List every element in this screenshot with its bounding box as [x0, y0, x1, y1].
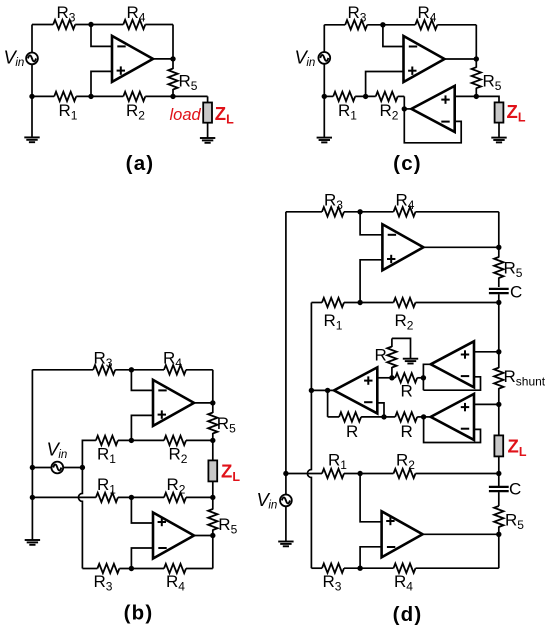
resistor R5 (c) — [475, 59, 477, 68]
op-amp U1 (d) — [382, 224, 423, 270]
node (c) R3-R4 junction — [380, 22, 385, 27]
wire (b) top mid — [115, 369, 164, 371]
wire (d) upper R lead — [392, 377, 395, 379]
wire (b) top left — [32, 369, 93, 371]
resistor R2 (a) — [123, 92, 145, 101]
wire (d) lower R2nd lead — [384, 416, 395, 418]
svg-text:R4: R4 — [418, 3, 437, 25]
node (d) U5 output junction — [496, 532, 501, 537]
node (d) U4 output junction — [421, 414, 426, 419]
ground (a) left — [24, 136, 39, 138]
wire (a) bottom mid — [76, 95, 123, 97]
node (d) Rshunt top junction — [496, 349, 501, 354]
op-amp U1 (a) minus sign — [117, 45, 125, 47]
svg-text:R1: R1 — [324, 311, 343, 333]
wire (d) U4 plus input — [474, 403, 499, 405]
wire (d) U2 feedback lead — [328, 416, 340, 418]
node (b) U2 output junction — [210, 533, 215, 538]
node (b) lower R1-R2 junction — [129, 495, 134, 500]
wire (d) U5 output — [423, 533, 499, 535]
wire (c) load to ground — [498, 123, 500, 138]
node (c) R1-R2 junction — [363, 94, 368, 99]
wire (d) C to rail — [498, 294, 500, 302]
svg-text:R5: R5 — [505, 511, 524, 533]
resistor R1 (c) — [333, 92, 355, 101]
svg-text:R5: R5 — [483, 72, 502, 94]
wire (d) lower rail right — [416, 473, 499, 475]
op-amp U2 (d) — [334, 367, 377, 413]
ground (b) — [25, 539, 40, 541]
wire (b) upper mid rail right — [186, 439, 213, 441]
node (d) R3-R4 junction — [357, 209, 362, 214]
resistor R (d) lower middle — [395, 412, 417, 421]
op-amp U1 (c) plus sign — [408, 70, 416, 72]
svg-text:R3: R3 — [348, 3, 367, 25]
node (c) output junction — [474, 56, 479, 61]
svg-text:R5: R5 — [504, 259, 523, 281]
resistor R3 (d) bottom — [322, 564, 344, 573]
svg-text:C: C — [510, 283, 522, 302]
wire (b) U2 inverting branch — [131, 548, 153, 569]
resistor R2 (b) upper — [164, 436, 186, 445]
wire (d) bottom mid — [344, 567, 394, 569]
wire (d) C to R5 — [498, 492, 500, 506]
svg-text:R1: R1 — [338, 101, 357, 123]
wire (a) non-inverting input branch — [91, 71, 112, 96]
op-amp U3 (d) minus sign — [461, 375, 469, 377]
wire (d) U2 plus stub — [377, 377, 392, 379]
node (d) Rshunt bottom junction — [496, 402, 501, 407]
svg-text:R2: R2 — [395, 311, 414, 333]
svg-text:R4: R4 — [396, 191, 415, 213]
voltage source Vin (d) — [280, 495, 292, 507]
node (b) upper R1-R2 junction — [129, 438, 134, 443]
voltage source Vin (a) — [26, 53, 38, 65]
node (d) upper R junction — [389, 375, 394, 380]
wire (a) top left — [32, 24, 53, 26]
resistor R1 (d) lower — [322, 469, 344, 478]
wire (b) Vin vertical with hop over lower rail — [78, 468, 82, 569]
op-amp U4 (d) plus sign — [461, 406, 469, 408]
wire (c) top mid — [367, 24, 415, 26]
svg-text:ZL: ZL — [508, 436, 527, 460]
circuit (b): left vertical wire — [31, 370, 33, 540]
wire (c) top left — [324, 24, 345, 26]
wire (b) lower mid rail — [118, 496, 164, 498]
wire (d) U2 output stub — [311, 389, 334, 391]
resistor Rshunt (d) — [498, 352, 500, 368]
op-amp U3 (d) — [431, 341, 474, 387]
wire (d) U2 inverting branch — [377, 403, 384, 417]
node (b) ZL bottom junction — [210, 495, 215, 500]
svg-text:(c): (c) — [393, 152, 422, 175]
resistor R4 (a) — [123, 20, 145, 29]
node (d) lower rail right junction — [496, 471, 501, 476]
svg-text:ZL: ZL — [215, 103, 234, 127]
op-amp U5 (d) minus sign — [387, 546, 395, 548]
wire (a) top middle — [75, 24, 123, 26]
resistor R3 (b) top — [93, 365, 115, 374]
load Z_L (b) — [208, 460, 217, 481]
op-amp U2 (c) plus sign — [441, 99, 449, 101]
node (d) lower R junction — [381, 414, 386, 419]
op-amp U2 buffer (c) — [411, 86, 454, 132]
resistor R5 (b) upper — [212, 403, 214, 413]
wire (d) U4 output stub — [424, 416, 431, 418]
resistor R2 (b) lower — [164, 493, 186, 502]
svg-text:R3: R3 — [323, 572, 342, 594]
resistor R5 (b) lower — [212, 497, 214, 509]
node (b) lower rail left junction — [30, 495, 35, 500]
resistor R4 (b) bottom — [164, 564, 186, 573]
node (b) Vin left junction — [30, 465, 35, 470]
wire (d) U3 plus input — [474, 351, 499, 353]
node (d) lower rail left junction — [283, 471, 288, 476]
svg-text:(d): (d) — [393, 603, 423, 626]
node (d) lower R1-R2 junction — [357, 471, 362, 476]
svg-text:R2: R2 — [126, 101, 145, 123]
node (a) bottom left junction — [29, 94, 34, 99]
svg-text:R: R — [375, 346, 387, 365]
svg-text:ZL: ZL — [221, 461, 240, 485]
wire (b) bottom left — [82, 568, 97, 570]
wire (c) buffer plus input — [455, 95, 477, 97]
wire (b) Vin stub — [32, 467, 82, 469]
wire (d) U1 inverting branch — [360, 212, 382, 235]
svg-text:R: R — [401, 422, 413, 441]
op-amp U1 (a) plus sign — [117, 70, 125, 72]
wire (d) U1 output — [423, 246, 498, 248]
wire (b) lower mid rail right — [186, 496, 213, 498]
node (d) U2 feedback tap — [325, 388, 330, 393]
node (a) output junction — [170, 56, 175, 61]
resistor R (d) upper middle — [395, 373, 417, 382]
wire (b) upper mid rail left — [82, 440, 96, 467]
node (b) R3-R4 bottom junction — [129, 566, 134, 571]
wire (b) upper mid rail — [118, 439, 164, 441]
resistor R5 (d) top — [498, 247, 500, 257]
svg-text:R3: R3 — [57, 3, 76, 25]
resistor R4 (d) bottom — [394, 564, 416, 573]
resistor R3 (c) — [345, 20, 367, 29]
svg-text:R: R — [346, 422, 358, 441]
wire (d) right column upper — [498, 303, 500, 352]
resistor R (d) grounded — [391, 338, 393, 347]
node (d) R3-R4 bottom junction — [357, 566, 362, 571]
svg-text:R5: R5 — [217, 414, 236, 436]
svg-text:load: load — [170, 106, 202, 124]
circuit (d): main left vertical wire — [285, 212, 287, 542]
svg-text:Vin: Vin — [295, 47, 316, 70]
resistor R2 (d) upper — [394, 298, 416, 307]
circuit (c): left vertical wire — [323, 25, 325, 138]
wire (d) rail to C — [498, 474, 500, 487]
wire (d) U2 feedback down — [327, 390, 329, 417]
node (b) U1 output junction — [210, 400, 215, 405]
op-amp U2 (b) plus sign — [158, 521, 166, 523]
op-amp U5 (d) — [382, 511, 423, 557]
svg-text:R1: R1 — [59, 101, 78, 123]
node (d) U1 output junction — [496, 245, 501, 250]
wire (b) ZL top lead — [212, 440, 214, 461]
wire (d) feedback to junction — [361, 416, 384, 418]
wire (c) top right — [437, 24, 476, 26]
node (b) R5-ZL top junction — [210, 438, 215, 443]
node (d) U2 output rail junction — [309, 388, 314, 393]
svg-text:R2: R2 — [169, 445, 188, 467]
svg-text:R1: R1 — [328, 451, 347, 473]
wire (d) bottom right — [416, 567, 499, 569]
wire (d) U3 output stub — [423, 364, 430, 390]
wire (d) U1 non-inverting branch — [360, 260, 382, 303]
svg-text:R5: R5 — [218, 515, 237, 537]
wire (a) op-amp output — [153, 58, 173, 60]
op-amp U2 (b) — [153, 513, 194, 559]
op-amp U3 (d) plus sign — [461, 354, 469, 356]
wire (c) bottom mid — [355, 95, 376, 97]
resistor R (d) U2 feedback — [339, 412, 361, 421]
wire (d) U3 feedback wrap — [423, 377, 480, 390]
node (b) Vin right junction — [80, 465, 85, 470]
wire (b) ZL bottom lead — [212, 481, 214, 497]
wire (a) inverting input branch — [91, 25, 112, 47]
op-amp U1 (b) plus sign — [158, 414, 166, 416]
svg-text:R4: R4 — [127, 3, 146, 25]
node (c) buffer output junction — [402, 106, 407, 111]
svg-text:R4: R4 — [394, 572, 413, 594]
svg-text:R1: R1 — [97, 475, 116, 497]
resistor R2 (c) — [376, 92, 398, 101]
svg-text:C: C — [509, 480, 521, 499]
node (a) R1-R2 junction — [88, 94, 93, 99]
capacitor C (d) bottom — [489, 486, 509, 488]
wire (b) bottom right — [186, 568, 213, 570]
wire (d) lower rail mid — [344, 473, 394, 475]
wire (a) bottom right — [145, 95, 173, 97]
wire (d) upper rail left — [311, 302, 322, 304]
resistor R1 (b) lower — [96, 493, 118, 502]
resistor R1 (a) — [54, 92, 76, 101]
wire (b) top right — [186, 369, 213, 371]
capacitor C (d) top — [489, 288, 509, 290]
op-amp U1 (d) minus sign — [388, 234, 396, 236]
svg-text:R3: R3 — [94, 572, 113, 594]
resistor R3 (d) top — [322, 207, 344, 216]
svg-text:R3: R3 — [94, 349, 113, 371]
wire (c) inverting branch — [383, 25, 404, 47]
wire (b) bottom mid — [119, 568, 164, 570]
resistor R4 (d) top — [394, 207, 416, 216]
wire (b) lower mid rail left — [32, 496, 96, 498]
node (c) Vin bottom junction — [322, 94, 327, 99]
node (c) R5 bottom junction — [474, 94, 479, 99]
svg-text:Vin: Vin — [257, 489, 278, 512]
resistor R5 (a) — [172, 59, 174, 69]
node (a) R3-R4 junction — [88, 22, 93, 27]
svg-text:R1: R1 — [97, 445, 116, 467]
ground (a) under load — [200, 137, 215, 139]
circuit (a): Howland current source -- left vertical wire — [31, 25, 33, 138]
wire (d) top left — [286, 211, 322, 213]
wire (a) to load — [173, 95, 208, 97]
op-amp U1 (b) minus sign — [158, 389, 166, 391]
op-amp U2 (b) minus sign — [158, 547, 166, 549]
wire (d) ZL top lead — [498, 404, 500, 436]
node (b) R3-R4 top junction — [129, 367, 134, 372]
wire (c) buffer feedback loop — [404, 109, 461, 143]
resistor R1 (b) upper — [96, 436, 118, 445]
resistor R5 (d) bottom — [494, 506, 503, 527]
wire (c) buffer output stub — [404, 108, 411, 110]
wire (b) U1 inverting branch — [131, 370, 153, 391]
wire (d) upper rail right — [416, 302, 499, 304]
svg-text:R3: R3 — [324, 191, 343, 213]
resistor R3 (a) — [53, 20, 75, 29]
load Z_L (d) — [494, 435, 503, 456]
wire (d) U4 feedback wrap — [424, 417, 481, 443]
wire (b) U1 non-inverting branch — [131, 415, 153, 440]
node (d) upper R1-R2 junction — [357, 300, 362, 305]
ground (c) left — [317, 137, 332, 139]
wire (d) upper R to U3 — [417, 377, 423, 379]
svg-text:Vin: Vin — [4, 47, 25, 70]
wire (c) non-inverting branch — [366, 72, 404, 97]
node (d) upper rail right junction — [496, 300, 501, 305]
op-amp U2 (c) minus sign — [441, 121, 449, 123]
svg-text:R: R — [401, 382, 413, 401]
wire (b) U2 non-inverting branch — [131, 497, 153, 523]
resistor R2 (d) lower — [394, 469, 416, 478]
wire (d) top right — [416, 211, 499, 213]
wire (c) R2 to buffer — [398, 95, 405, 97]
op-amp U1 (c) — [404, 36, 445, 82]
wire (c) bottom left — [324, 95, 333, 97]
load Z_L (a) — [203, 103, 212, 123]
op-amp U1 (c) minus sign — [409, 46, 417, 48]
wire (a) load to ground — [207, 123, 209, 138]
wire (d) upper rail mid — [344, 302, 394, 304]
svg-text:(b): (b) — [124, 602, 154, 625]
op-amp U2 (d) minus sign — [364, 401, 372, 403]
load Z_L (c) — [495, 102, 504, 122]
wire (d) grounded R to ground — [392, 338, 411, 358]
node (a) R5 bottom junction — [170, 94, 175, 99]
ground (c) under load — [491, 137, 506, 139]
svg-text:R2: R2 — [167, 475, 186, 497]
resistor R4 (b) top — [164, 365, 186, 374]
resistor R1 (d) upper — [322, 298, 344, 307]
wire (a) top right — [145, 24, 173, 26]
node (d) U3 output junction — [421, 375, 426, 380]
svg-text:R4: R4 — [163, 349, 182, 371]
svg-text:R4: R4 — [166, 572, 185, 594]
op-amp U1 (d) plus sign — [387, 258, 395, 260]
wire (d) U5 inverting branch — [360, 547, 382, 568]
wire (d) U5 non-inverting branch — [360, 474, 382, 522]
wire (d) second vertical with hop — [307, 303, 311, 569]
op-amp U1 (b) — [153, 380, 194, 426]
ground (d) under Vin — [278, 541, 293, 543]
svg-text:Rshunt: Rshunt — [504, 367, 546, 389]
svg-text:R5: R5 — [179, 72, 198, 94]
svg-text:(a): (a) — [126, 152, 155, 175]
svg-text:ZL: ZL — [507, 101, 526, 125]
wire (c) U1 output — [445, 58, 477, 60]
svg-text:R2: R2 — [380, 101, 399, 123]
wire (d) top mid — [344, 211, 394, 213]
op-amp U4 (d) — [431, 394, 474, 440]
resistor R4 (c) — [415, 20, 437, 29]
op-amp U1 (a) — [112, 36, 153, 82]
svg-text:Vin: Vin — [47, 438, 68, 461]
ground (d) middle — [403, 358, 418, 360]
svg-text:R2: R2 — [396, 451, 415, 473]
op-amp U2 (d) plus sign — [364, 380, 372, 382]
voltage source Vin (c) — [318, 52, 330, 64]
op-amp U4 (d) minus sign — [461, 428, 469, 430]
wire (d) lower R to U4 — [417, 416, 423, 418]
wire (d) bottom left — [311, 567, 322, 569]
wire (c) to load — [476, 96, 499, 103]
wire (b) U1 output — [194, 402, 213, 404]
wire (d) lower rail left — [286, 473, 322, 475]
resistor R3 (b) bottom — [97, 564, 119, 573]
voltage source Vin (b) — [51, 462, 63, 474]
wire (a) bottom left — [32, 95, 54, 97]
wire (d) ZL bottom lead — [498, 456, 500, 473]
op-amp U5 (d) plus sign — [386, 520, 394, 522]
wire (b) U2 output — [194, 535, 213, 537]
